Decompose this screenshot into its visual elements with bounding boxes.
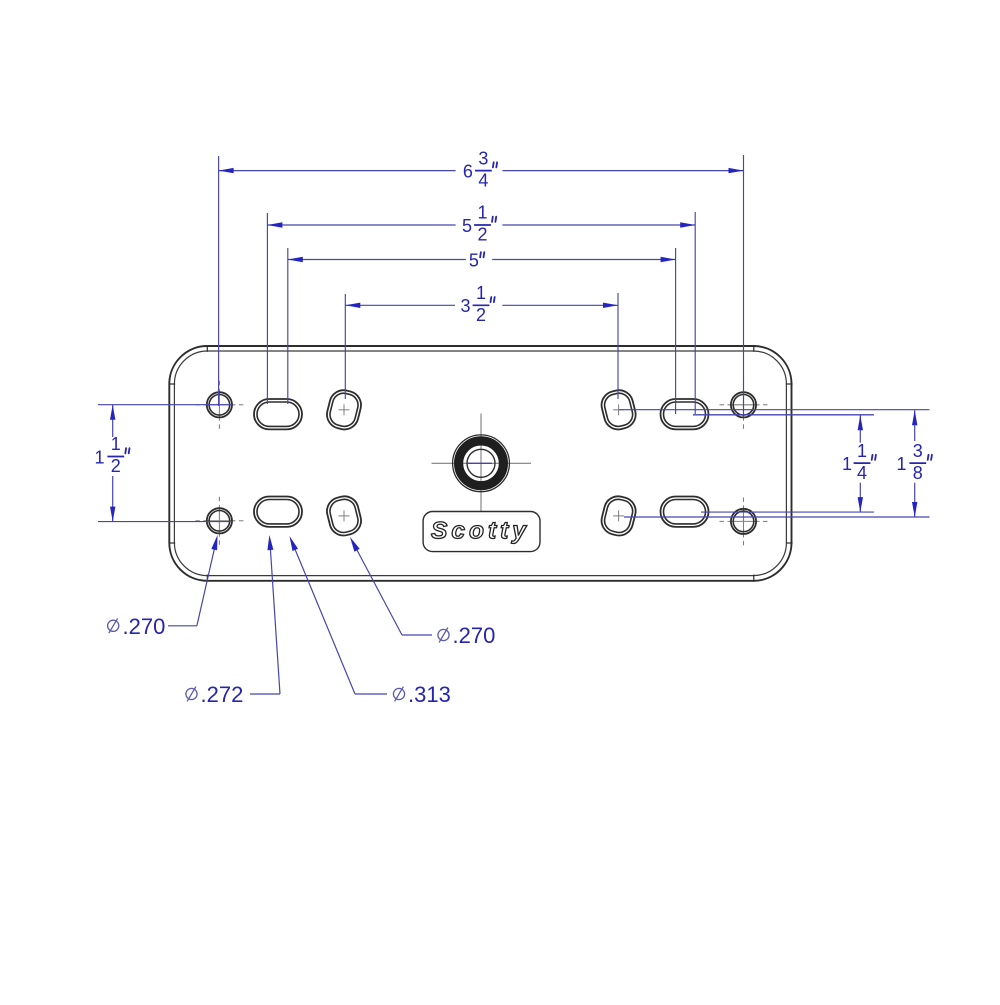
svg-text:.270: .270: [453, 623, 496, 648]
svg-text:3: 3: [478, 148, 488, 168]
svg-text:1: 1: [857, 441, 867, 461]
svg-text:2: 2: [111, 456, 121, 476]
svg-text:6: 6: [463, 161, 473, 181]
svg-text:3: 3: [460, 296, 470, 316]
svg-text:1: 1: [842, 454, 852, 474]
svg-text:.272: .272: [201, 682, 244, 707]
svg-text:1: 1: [476, 283, 486, 303]
svg-text:5: 5: [469, 250, 479, 270]
svg-text:4: 4: [478, 170, 488, 190]
svg-text:8: 8: [913, 463, 923, 483]
svg-text:3: 3: [913, 441, 923, 461]
svg-text:1: 1: [896, 454, 906, 474]
svg-text:.270: .270: [123, 614, 166, 639]
svg-text:5: 5: [462, 216, 472, 236]
svg-text:1: 1: [477, 203, 487, 223]
svg-text:4: 4: [857, 463, 867, 483]
svg-text:1: 1: [94, 447, 104, 467]
svg-text:2: 2: [477, 225, 487, 245]
svg-text:2: 2: [476, 305, 486, 325]
svg-text:1: 1: [111, 434, 121, 454]
svg-text:Scotty: Scotty: [431, 518, 530, 545]
svg-text:.313: .313: [408, 682, 451, 707]
